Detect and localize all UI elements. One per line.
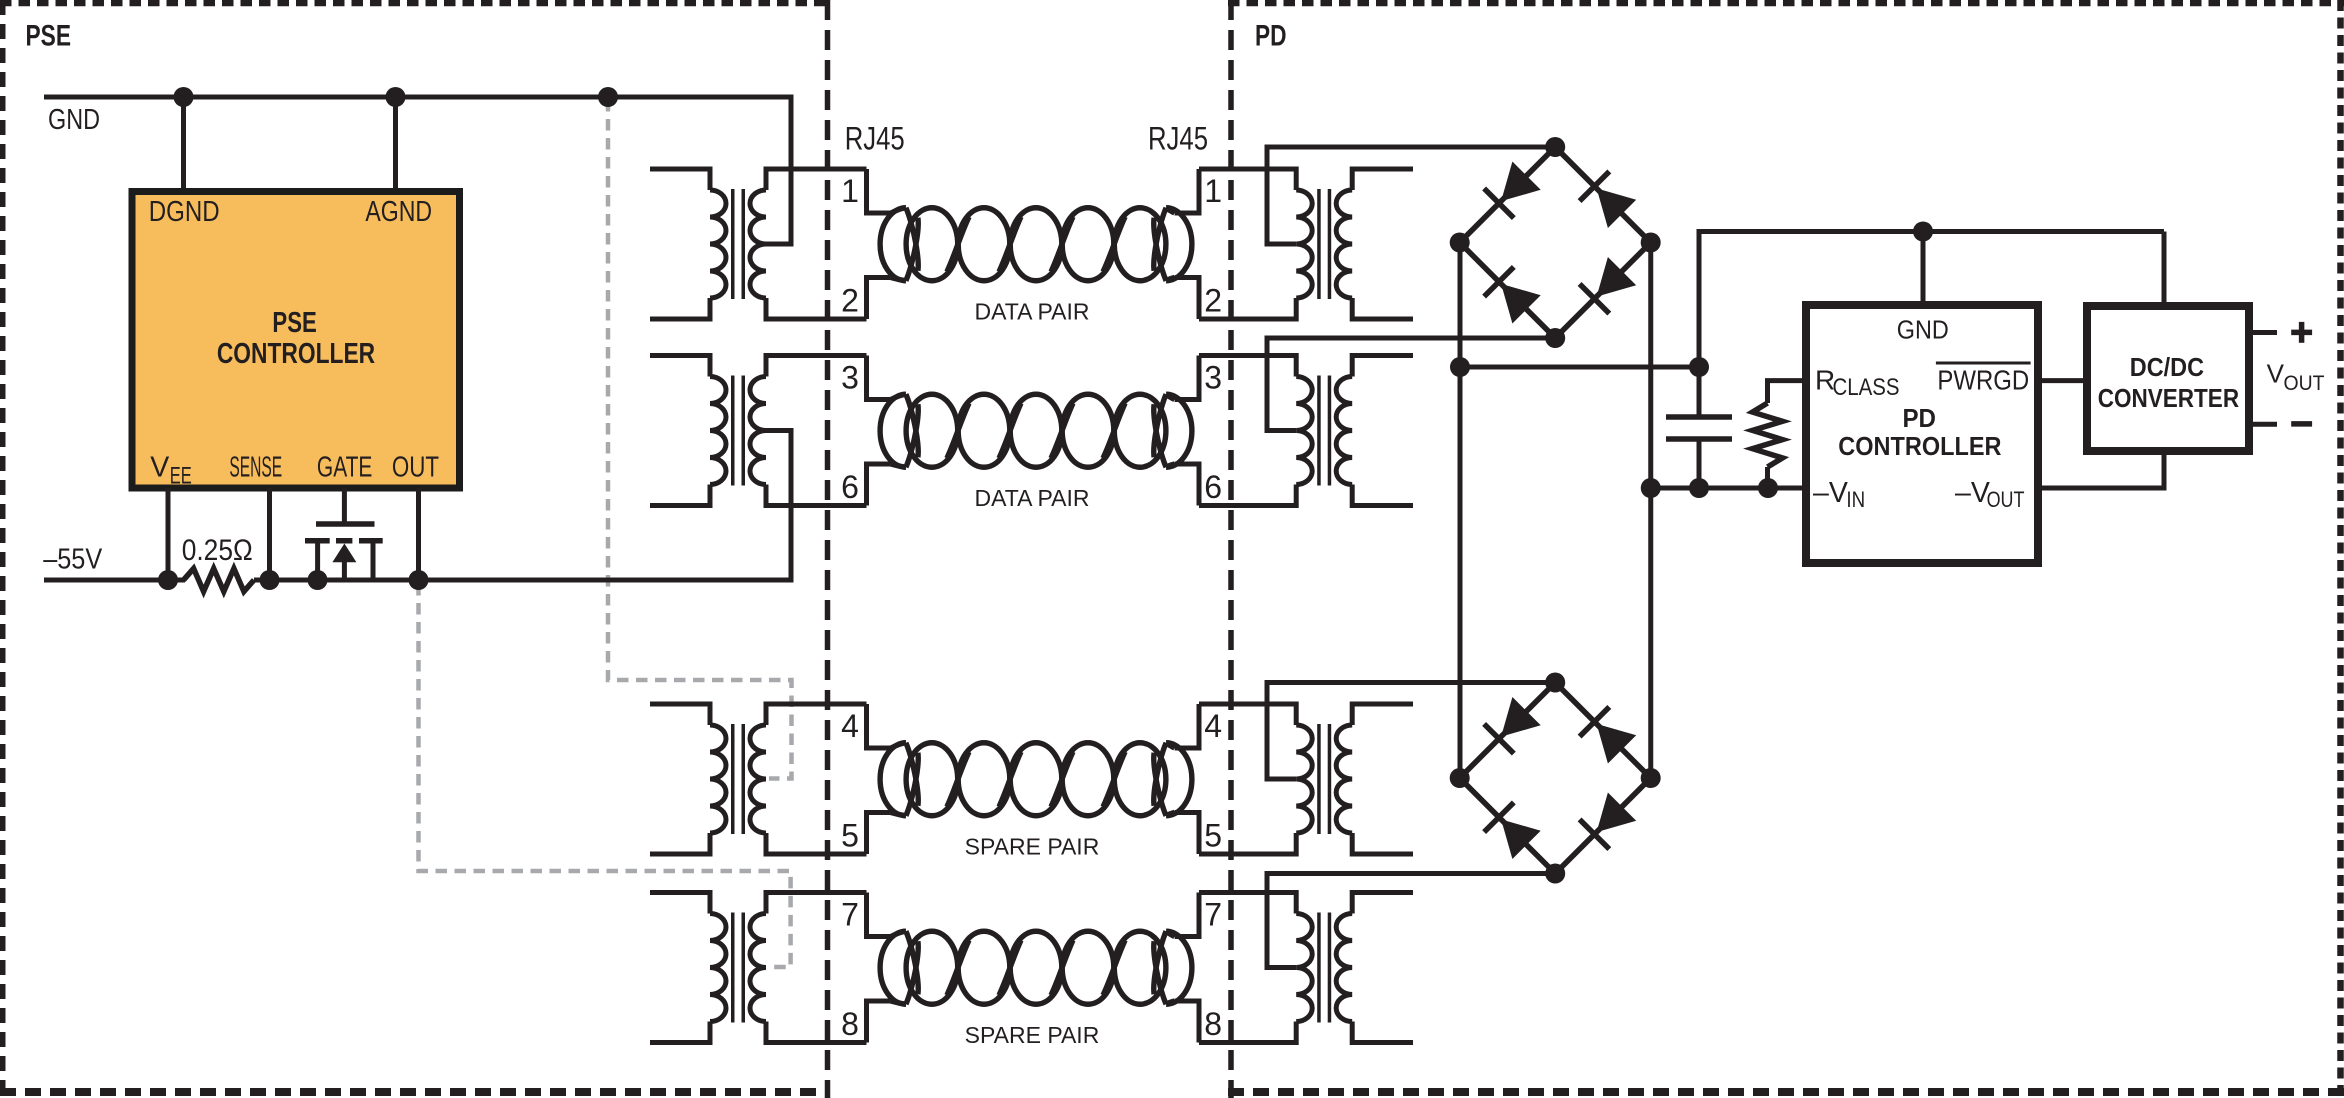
- PSE boundary dashed box: [0, 0, 6, 1098]
- RJ45 left connector row 2: [867, 356, 891, 400]
- wire GATE pin: [342, 488, 347, 524]
- junction dot GND-AGND: [386, 87, 406, 107]
- PD controller IC box: [1806, 305, 2038, 563]
- DC/DC converter box: [2087, 306, 2249, 451]
- transformer T4 (pins 7/8 PSE side): [731, 913, 735, 1023]
- wire GND pin of PD controller: [1921, 232, 1926, 308]
- svg-text:DGND: DGND: [149, 196, 220, 228]
- wire -VOUT to DC/DC: [2038, 452, 2164, 488]
- svg-text:GATE: GATE: [317, 452, 373, 484]
- wire PWRGD to DC/DC: [2038, 378, 2087, 383]
- diode D2d bottom-right: [1580, 819, 1610, 849]
- wire VEE pin: [166, 488, 171, 580]
- twisted pair wires row at y=779: [891, 743, 906, 748]
- PSE controller IC box: [132, 192, 460, 489]
- svg-text:CONTROLLER: CONTROLLER: [217, 338, 375, 370]
- svg-text:RJ45: RJ45: [1148, 120, 1208, 156]
- RJ45 right connector row 1: [1175, 169, 1199, 213]
- wire GND top rail: [1699, 229, 2164, 234]
- junction dot -VIN cap: [1689, 478, 1709, 498]
- junction dot GND-DGND: [174, 87, 194, 107]
- junction dot resistor-SENSE: [260, 570, 280, 590]
- diode D1d bottom-right: [1580, 284, 1610, 314]
- junction dot GND rail to PD controller: [1913, 222, 1933, 242]
- svg-text:2: 2: [841, 283, 859, 319]
- wire -55V rail left segment: [44, 578, 185, 583]
- wire center tap of T7 to bridge: [1267, 683, 1555, 780]
- svg-text:DATA PAIR: DATA PAIR: [974, 485, 1089, 511]
- transformer T7 (pins 4/5 PD side): [1317, 724, 1321, 834]
- svg-text:1: 1: [1204, 173, 1222, 209]
- svg-text:SPARE PAIR: SPARE PAIR: [965, 834, 1100, 860]
- svg-text:2: 2: [1204, 283, 1222, 319]
- svg-text:SENSE: SENSE: [229, 452, 282, 484]
- twisted pair wires row at y=430.5: [891, 394, 906, 399]
- svg-text:PWRGD: PWRGD: [1937, 364, 2029, 395]
- junction dot GND-spare branch: [598, 87, 618, 107]
- wire DGND pin: [181, 95, 186, 192]
- RJ45 left connector row 1: [867, 169, 891, 213]
- diode D1b top-right: [1580, 171, 1610, 201]
- junction dots bridge D2 corners: [1545, 673, 1565, 693]
- wire capacitor upper lead: [1697, 229, 1702, 417]
- wire bridge right corners bus (negative): [1648, 243, 1653, 779]
- svg-text:OUT: OUT: [1987, 487, 2025, 512]
- PD boundary dashed box: [1228, 0, 1234, 1098]
- svg-text:4: 4: [1204, 708, 1222, 744]
- svg-text:–55V: –55V: [43, 543, 102, 575]
- svg-text:OUT: OUT: [392, 452, 439, 484]
- RJ45 right connector row 3: [1175, 704, 1199, 748]
- transistor Q1 drain stub: [315, 540, 320, 580]
- bridge rectifier D1 diamond: [1460, 147, 1651, 338]
- wire center tap of T6 to bridge: [1267, 338, 1555, 431]
- svg-text:AGND: AGND: [365, 196, 432, 228]
- svg-text:6: 6: [1204, 469, 1222, 505]
- wire -55V rail right segment incl T2 center-tap: [254, 431, 791, 581]
- resistor 0.25ohm sense resistor: [184, 569, 255, 592]
- transformer T5 (pins 1/2 PD side): [1317, 189, 1321, 299]
- transformer T2 (pins 3/6 PSE side): [731, 376, 735, 486]
- diode D2c bottom-left: [1484, 802, 1514, 832]
- wire -VIN rail: [1651, 486, 1806, 491]
- svg-text:4: 4: [841, 708, 859, 744]
- svg-text:PSE: PSE: [26, 20, 72, 53]
- wire positive bus to capacitor node: [1460, 365, 1699, 370]
- resistor RCLASS: [1753, 403, 1783, 467]
- svg-text:–V: –V: [1955, 477, 1990, 509]
- svg-text:3: 3: [1204, 360, 1222, 396]
- wire GND rail: [44, 97, 791, 244]
- twisted pair wires row at y=244: [891, 208, 906, 213]
- RJ45 left connector row 3: [867, 704, 891, 748]
- wire OUT pin: [416, 488, 421, 580]
- svg-text:DC/DC: DC/DC: [2130, 352, 2204, 382]
- dashed optional wire from OUT node to spare transformer T4 tap: [419, 584, 791, 967]
- diode D1a top-left: [1484, 188, 1514, 218]
- svg-text:0.25Ω: 0.25Ω: [182, 534, 253, 567]
- svg-text:EE: EE: [170, 463, 192, 490]
- junction dot -VIN rclass: [1758, 478, 1778, 498]
- svg-text:8: 8: [841, 1006, 859, 1042]
- svg-text:PD: PD: [1255, 20, 1287, 53]
- transformer T6 (pins 3/6 PD side): [1317, 376, 1321, 486]
- transformer T8 (pins 7/8 PD side): [1317, 913, 1321, 1023]
- svg-text:–V: –V: [1813, 477, 1848, 509]
- wire AGND pin: [393, 95, 398, 192]
- junction dot positive bus: [1450, 357, 1470, 377]
- wire bridge left corners bus (positive): [1458, 243, 1463, 779]
- junction dot -VIN bridge: [1641, 478, 1661, 498]
- svg-text:5: 5: [1204, 818, 1222, 854]
- wire DC/DC top pin: [2162, 232, 2167, 308]
- diode D2a top-left: [1484, 724, 1514, 754]
- wire capacitor lower lead: [1697, 439, 1702, 490]
- svg-text:PD: PD: [1902, 403, 1936, 433]
- svg-text:6: 6: [841, 469, 859, 505]
- svg-text:PSE: PSE: [272, 307, 316, 339]
- diode D2b top-right: [1580, 707, 1610, 737]
- RJ45 right connector row 2: [1175, 356, 1199, 400]
- svg-text:GND: GND: [1897, 314, 1949, 344]
- svg-text:GND: GND: [48, 104, 100, 136]
- diode D1c bottom-left: [1484, 267, 1514, 297]
- wire RCLASS resistor bottom lead: [1765, 467, 1770, 490]
- junction dots bridge D1 corners: [1545, 137, 1565, 157]
- wire center tap of T8 to bridge: [1267, 874, 1555, 968]
- svg-text:1: 1: [841, 173, 859, 209]
- svg-text:5: 5: [841, 818, 859, 854]
- RJ45 right connector row 4: [1175, 893, 1199, 937]
- transistor Q1 body arrow: [332, 544, 356, 563]
- svg-text:V: V: [2267, 359, 2285, 389]
- transformer T1 (pins 1/2 PSE side): [731, 189, 735, 299]
- svg-text:3: 3: [841, 360, 859, 396]
- dashed optional wire from GND rail to spare transformer T3 tap: [608, 100, 792, 779]
- transformer T3 (pins 4/5 PSE side): [731, 724, 735, 834]
- junction dot OUT node: [409, 570, 429, 590]
- transistor Q1 source stub: [371, 540, 376, 580]
- svg-text:8: 8: [1204, 1006, 1222, 1042]
- twisted pair wires row at y=967.5: [891, 931, 906, 936]
- svg-text:CONTROLLER: CONTROLLER: [1838, 431, 2001, 461]
- wire center tap of T5 to bridge: [1267, 147, 1555, 244]
- capacitor C1: [1666, 414, 1732, 420]
- svg-text:OUT: OUT: [2284, 372, 2325, 395]
- plus sign output: [2291, 330, 2312, 336]
- svg-text:7: 7: [841, 897, 859, 933]
- transistor Q1 MOSFET channel segments: [305, 538, 330, 544]
- svg-text:DATA PAIR: DATA PAIR: [974, 299, 1089, 325]
- svg-text:SPARE PAIR: SPARE PAIR: [965, 1022, 1100, 1048]
- wire VOUT minus lead: [2249, 422, 2277, 427]
- transistor Q1 MOSFET gate bar: [316, 521, 375, 527]
- junction dot VEE-resistor: [158, 570, 178, 590]
- minus sign output: [2291, 421, 2312, 427]
- junction dot MOSFET drain: [308, 570, 328, 590]
- svg-text:CLASS: CLASS: [1833, 374, 1900, 401]
- RJ45 left connector row 4: [867, 893, 891, 937]
- wire RCLASS pin lead: [1768, 381, 1807, 403]
- svg-text:V: V: [150, 452, 169, 484]
- bridge rectifier D2 diamond: [1460, 683, 1651, 874]
- wire VOUT plus lead: [2249, 330, 2277, 335]
- svg-text:CONVERTER: CONVERTER: [2098, 383, 2240, 413]
- svg-text:IN: IN: [1846, 487, 1865, 512]
- svg-text:RJ45: RJ45: [845, 120, 905, 156]
- junction dot capacitor top node: [1689, 357, 1709, 377]
- wire SENSE pin: [267, 488, 272, 580]
- svg-text:7: 7: [1204, 897, 1222, 933]
